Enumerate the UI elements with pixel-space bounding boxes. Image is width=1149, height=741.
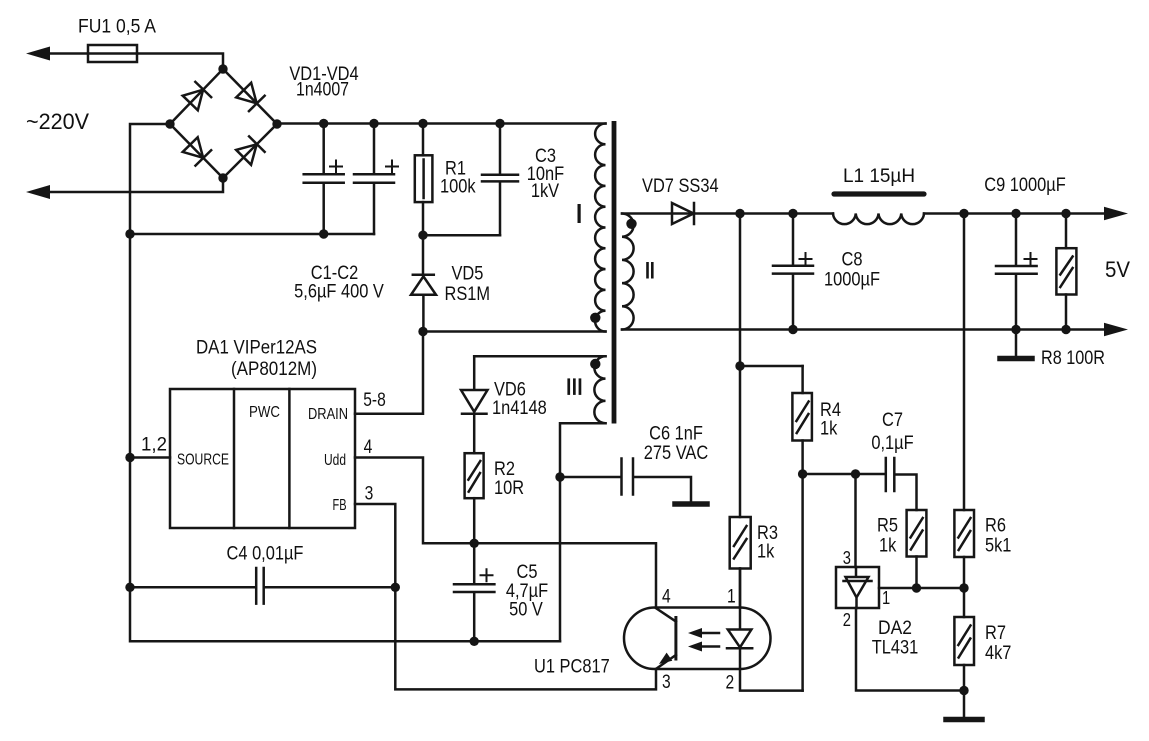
svg-text:3: 3 [662, 672, 671, 693]
svg-text:5k1: 5k1 [985, 536, 1011, 557]
wire primary ground left rail [130, 124, 560, 641]
op-amp U1 controller DA1 VIPer12AS box [170, 389, 355, 528]
capacitor C9 [996, 214, 1037, 330]
wire to R4 [740, 365, 803, 368]
svg-text:DA1 VIPer12AS: DA1 VIPer12AS [196, 338, 317, 359]
wire opto pin 1 from R3 [739, 569, 742, 608]
svg-text:1k: 1k [757, 542, 775, 563]
svg-text:1n4148: 1n4148 [492, 398, 547, 419]
inductor L1 [833, 214, 924, 225]
svg-text:R6: R6 [985, 516, 1006, 537]
node R6 R7 junction [959, 583, 968, 592]
wire secondary top rail [622, 212, 1106, 215]
node R8 top [1061, 209, 1070, 218]
opto transistor collector [656, 608, 676, 622]
opto light arrows [702, 633, 719, 647]
capacitor C3 [482, 124, 518, 236]
node C3 top [495, 119, 504, 128]
svg-text:(AP8012M): (AP8012M) [231, 359, 317, 380]
node C8 bottom [788, 325, 797, 334]
arrow output plus [1104, 207, 1128, 220]
diode VD3 (lower-left edge) [182, 137, 211, 166]
ground under C9 [1000, 356, 1032, 362]
wire secondary bottom rail [622, 328, 1106, 331]
ground under C6 [675, 501, 707, 507]
node C5 bottom [470, 637, 479, 646]
TL431 symbol [844, 567, 872, 608]
node R6 top [959, 209, 968, 218]
label winding II [646, 262, 653, 279]
svg-text:PWC: PWC [249, 404, 280, 421]
arrow output minus [1104, 323, 1128, 336]
capacitor C2 [354, 124, 394, 235]
svg-text:275 VAC: 275 VAC [644, 443, 708, 464]
wire AC line 1 to fuse [47, 52, 88, 55]
node DA2 ref branch [851, 469, 860, 478]
opto LED [727, 608, 752, 670]
opto transistor bar [674, 618, 677, 660]
wire fuse to bridge top [137, 54, 223, 70]
bridge rectifier VD1-VD4 edges [170, 69, 277, 178]
resistor R7 [954, 617, 974, 665]
resistor R1 [422, 124, 425, 156]
svg-text:4: 4 [364, 437, 373, 458]
capacitor C7 [886, 458, 917, 510]
opto transistor emitter [657, 655, 676, 669]
svg-text:FB: FB [333, 497, 347, 514]
transformer winding III [594, 356, 605, 423]
transformer core [612, 121, 617, 424]
arrow mains line 2 [26, 185, 50, 199]
svg-text:DRAIN: DRAIN [308, 406, 348, 423]
svg-text:C7: C7 [882, 410, 903, 431]
svg-text:R7: R7 [985, 623, 1006, 644]
diode VD1 (upper-left edge) [182, 82, 211, 111]
wire opto pin 2 [740, 669, 803, 691]
svg-text:2: 2 [843, 610, 851, 630]
node C2 top [369, 119, 378, 128]
label winding III [567, 378, 581, 395]
diode VD2 (upper-right edge) [236, 82, 265, 111]
winding I phasing dot [590, 313, 600, 323]
node R1 top [418, 119, 427, 128]
label winding I [578, 204, 581, 223]
node C6 branch [555, 472, 564, 481]
wire winding III return [560, 423, 606, 641]
wire DRAIN pin [355, 332, 423, 414]
node R5 bottom [912, 583, 921, 592]
svg-text:1,2: 1,2 [141, 435, 167, 456]
svg-text:50 V: 50 V [509, 600, 543, 621]
transformer winding I [595, 124, 605, 332]
node clamp R1 C3 [418, 231, 427, 240]
svg-text:5V: 5V [1105, 257, 1130, 282]
svg-text:C5: C5 [517, 562, 538, 583]
wire AC line 2 to bridge bottom [47, 178, 223, 192]
node C1 bottom [319, 229, 328, 238]
node R3 R4 split [735, 361, 744, 370]
capacitor C1 [304, 124, 344, 235]
fuse FU1 [88, 52, 137, 55]
svg-text:C4 0,01µF: C4 0,01µF [227, 544, 304, 565]
diode VD5 [422, 235, 425, 274]
node C9 bottom [1011, 325, 1020, 334]
node C1 top [319, 119, 328, 128]
node left rail bottom rail [125, 229, 134, 238]
resistor R5 [907, 510, 927, 557]
transformer winding II [622, 214, 634, 330]
svg-text:10R: 10R [494, 478, 524, 499]
ground bottom right [946, 717, 982, 723]
winding III phasing dot [590, 359, 600, 369]
svg-text:1000µF: 1000µF [824, 270, 880, 291]
wire clamp node [423, 234, 500, 237]
arrow mains line 1 [26, 47, 50, 61]
wire SOURCE pin [130, 456, 170, 459]
svg-text:R5: R5 [877, 516, 898, 537]
svg-text:C8: C8 [842, 250, 863, 271]
svg-text:100k: 100k [440, 177, 476, 198]
svg-text:C6 1nF: C6 1nF [649, 424, 703, 445]
resistor R3 [730, 517, 751, 569]
svg-text:5-8: 5-8 [363, 390, 386, 411]
capacitor C8 [773, 214, 813, 330]
resistor R4 [801, 366, 804, 393]
svg-text:1: 1 [727, 587, 736, 608]
wire DA2 cathode to divider [879, 587, 964, 590]
resistor R6 [963, 214, 966, 511]
optocoupler U1 PC817 body [624, 608, 771, 670]
diode VD6 [461, 356, 488, 453]
svg-text:SOURCE: SOURCE [177, 452, 229, 469]
svg-text:Udd: Udd [324, 452, 346, 469]
svg-text:1kV: 1kV [531, 181, 560, 202]
node bridge left [165, 119, 174, 128]
svg-text:U1 PC817: U1 PC817 [534, 657, 610, 678]
svg-text:3: 3 [843, 548, 851, 568]
wire Udd pin [355, 458, 656, 608]
svg-text:TL431: TL431 [872, 638, 919, 659]
svg-text:4k7: 4k7 [985, 643, 1011, 664]
node Udd R2 C5 [470, 539, 479, 548]
svg-text:2: 2 [726, 673, 735, 694]
node FB C4 [391, 583, 400, 592]
wire FB pin [355, 504, 656, 689]
svg-text:1: 1 [882, 588, 890, 608]
winding II phasing dot [626, 219, 636, 229]
svg-text:VD7 SS34: VD7 SS34 [642, 176, 719, 197]
diode VD4 (lower-right edge) [236, 136, 265, 165]
node R4 bottom ref node [798, 469, 807, 478]
node C4 left rail [125, 583, 134, 592]
node R8 bottom [1061, 325, 1070, 334]
svg-text:L1 15µH: L1 15µH [843, 166, 915, 187]
node source left rail [125, 453, 134, 462]
svg-text:RS1M: RS1M [445, 284, 491, 305]
wire feedback branch vertical [739, 214, 742, 518]
capacitor C6 [560, 459, 691, 502]
wire DA2 pin 3 stem [854, 474, 857, 567]
svg-text:5,6µF 400 V: 5,6µF 400 V [294, 282, 384, 303]
node VD5 bottom primary return [418, 327, 427, 336]
svg-text:C9 1000µF: C9 1000µF [984, 175, 1066, 196]
svg-text:1k: 1k [820, 419, 838, 440]
node top rail branch [735, 209, 744, 218]
op-amp DA2 TL431 box [836, 567, 879, 608]
wire bottom rail C1 C2 [130, 233, 374, 236]
capacitor C4 [130, 568, 395, 604]
resistor R8 [1065, 214, 1068, 249]
wire DA2 pin 2 to ground rail [856, 608, 964, 691]
svg-text:3: 3 [365, 484, 374, 505]
node C9 top [1011, 209, 1020, 218]
capacitor C5 [454, 543, 494, 641]
svg-text:0,1µF: 0,1µF [871, 433, 913, 454]
svg-text:1k: 1k [879, 536, 897, 557]
node bridge right [272, 119, 281, 128]
svg-text:VD5: VD5 [452, 264, 484, 285]
svg-text:1n4007: 1n4007 [296, 80, 349, 101]
svg-text:4: 4 [662, 587, 671, 608]
node R7 bottom [959, 686, 968, 695]
node bridge top [218, 64, 227, 73]
svg-text:R8 100R: R8 100R [1041, 348, 1105, 369]
wire top DC bus [277, 122, 606, 125]
svg-text:DA2: DA2 [878, 618, 912, 639]
svg-text:~220V: ~220V [26, 109, 89, 134]
diode VD7 [672, 203, 694, 224]
svg-text:R2: R2 [494, 459, 515, 480]
wire ref node to C7 [803, 473, 885, 476]
node bridge bottom [218, 173, 227, 182]
svg-text:FU1 0,5 A: FU1 0,5 A [78, 17, 156, 38]
node C8 top [788, 209, 797, 218]
wire VD6 top to winding III [474, 355, 605, 358]
resistor R2 [465, 453, 484, 498]
wire primary bottom [423, 330, 606, 333]
wire C9 to ground [1015, 330, 1018, 357]
